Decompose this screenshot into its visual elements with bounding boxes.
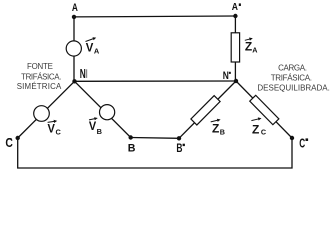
label node N' [223,70,231,82]
svg-text:V: V [89,120,96,133]
svg-text:DESEQUILIBRADA.: DESEQUILIBRADA. [257,83,329,92]
impedance ZA [231,33,239,62]
svg-text:V: V [48,123,56,136]
svg-text:N: N [80,67,86,81]
wire N to C (diagonal, through VC) [18,81,75,138]
label ZB (phasor) [211,119,225,137]
label node N [80,67,87,81]
impedance ZB [191,96,220,125]
svg-text:C: C [261,127,266,136]
svg-text:TRIFÁSICA.: TRIFÁSICA. [21,72,61,81]
svg-text:SIMÉTRICA: SIMÉTRICA [17,82,62,91]
voltage source VC [34,106,50,122]
wire A' to N' (vertical, through ZA) [234,16,236,81]
svg-text:A: A [252,46,257,55]
svg-text:N: N [223,70,229,82]
svg-text:A: A [232,2,239,13]
label node C'' [299,136,308,151]
node A' [233,14,237,18]
label ZC (phasor) [251,117,266,136]
node C'' [290,136,294,140]
svg-text:B: B [97,127,102,136]
wire B to B' [131,137,179,140]
svg-text:C: C [5,136,12,150]
wire N' to B' (diagonal, through ZB) [179,81,236,138]
label node A' [232,2,241,13]
svg-text:B: B [220,128,225,137]
voltage source VA [66,41,81,56]
label ZA (phasor) [245,38,258,55]
node N [72,79,76,83]
label VA (phasor) [86,37,100,55]
svg-text:B: B [128,143,136,155]
label node C' [5,136,12,150]
svg-text:C: C [299,136,305,151]
wire N to N' (neutral) [75,80,237,82]
node A [72,15,76,19]
node B' [177,136,181,140]
wire A to N (vertical, through VA) [73,17,75,81]
svg-text:A: A [94,46,100,55]
label VB (phasor) [89,117,102,136]
voltage source VB [100,105,115,120]
svg-text:TRIFÁSICA.: TRIFÁSICA. [271,74,312,83]
svg-text:Z: Z [252,122,260,136]
wire N to B (diagonal, through VB) [75,81,131,137]
svg-text:Z: Z [212,122,220,136]
label node B' [176,141,185,155]
text block: CARGA TRIFASICA DESEQUILIBRADA [257,63,329,92]
svg-text:B: B [176,141,182,155]
wire N' to C'' (diagonal, through ZC) [236,81,292,138]
svg-text:V: V [86,40,94,54]
wire A to A' (top line) [74,15,235,18]
text block: FONTE TRIFASICA SIMETRICA [17,62,62,91]
impedance ZC [250,95,279,124]
svg-text:CARGA.: CARGA. [278,63,307,72]
label VC (phasor) [48,120,62,137]
node N' [234,79,238,83]
svg-text:A: A [72,2,78,14]
wire C to C'' (bottom return path) [18,138,292,168]
svg-text:FONTE: FONTE [27,62,53,71]
node C [16,136,20,140]
node B [129,135,133,139]
svg-text:C: C [56,128,62,137]
